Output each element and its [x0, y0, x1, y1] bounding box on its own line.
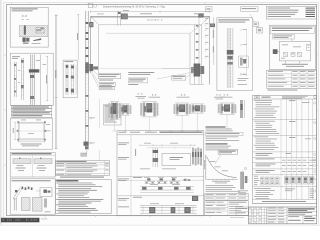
fastener cluster below section — [22, 37, 30, 42]
head assembly lower marks — [140, 168, 150, 171]
top profile long drawing — [140, 186, 194, 188]
order table header — [253, 98, 317, 100]
perspective thin profiles — [13, 198, 15, 211]
leader lines from gear — [162, 68, 194, 70]
order table block 2 text — [254, 120, 275, 123]
svg-text:B - A: B - A — [216, 93, 221, 96]
tech data table 1 — [205, 194, 248, 201]
profile bar bottom hardware — [84, 142, 89, 146]
left jamb corner hinge — [89, 22, 93, 27]
left caption rows block — [11, 106, 51, 109]
cover cap left panel — [13, 159, 31, 164]
drawing number cells — [302, 215, 304, 224]
hatched section detail — [19, 26, 48, 37]
order table row separators — [253, 119, 317, 121]
relay K1 — [291, 53, 295, 57]
tech data lines 2 — [206, 136, 239, 139]
top frame hinge hardware — [117, 12, 119, 26]
order table row profile — [256, 169, 275, 172]
central table header — [117, 134, 204, 136]
order table block 3 text — [254, 136, 268, 139]
perspective fasteners row — [22, 187, 24, 190]
svg-text:Ansicht A, B - B: Ansicht A, B - B — [147, 18, 163, 21]
tech data boxed line — [206, 132, 244, 135]
svg-text:A - A: A - A — [152, 94, 157, 97]
diagram axis caption — [212, 180, 230, 183]
elevation interior sash-bottom line — [99, 68, 190, 70]
left box dimension line — [46, 56, 48, 101]
order table row zubehoer — [256, 158, 275, 161]
dimension line sash — [77, 14, 79, 60]
diagram label box — [218, 150, 237, 154]
installation box — [10, 179, 55, 214]
tech data table 2 — [205, 201, 248, 216]
right dim strip — [213, 17, 215, 65]
cover cap right panel — [34, 159, 52, 164]
vertical profile 2 — [20, 58, 22, 100]
right jamb dimension labels — [205, 20, 207, 22]
bracket icons row — [147, 178, 150, 180]
central table frame — [117, 131, 204, 216]
svg-text:B - B: B - B — [22, 16, 28, 18]
head assembly left profiles — [152, 148, 154, 168]
head assembly right parts — [192, 148, 194, 165]
cover caps box — [10, 152, 55, 177]
section bottom tips — [113, 130, 117, 132]
central table divider oben — [117, 175, 204, 177]
profile bottom tip leader — [82, 153, 87, 157]
svg-text:B - B: B - B — [138, 94, 143, 96]
legend symbol pair — [253, 22, 259, 27]
perspective glazing panel 2 — [33, 198, 43, 212]
schematic caption — [282, 63, 308, 66]
central table divider unten — [117, 195, 204, 197]
title block middle cells — [266, 207, 268, 224]
terminal X1 — [307, 44, 311, 50]
Ansicht box dim ticks — [240, 29, 242, 31]
drawing title cell — [288, 211, 312, 214]
Ansicht box profile bars — [226, 28, 228, 88]
section detail S0 — [110, 101, 119, 103]
svg-text:Zusammenbauzeichnung Nr. 50 W: Zusammenbauzeichnung Nr. 50 W (v. Überst… — [103, 5, 166, 8]
cable table — [267, 70, 317, 88]
Ansicht box right — [217, 18, 253, 91]
elevation top dim line — [91, 11, 210, 13]
window schematic box — [10, 118, 52, 149]
section detail right strip — [240, 100, 243, 118]
window corner fittings — [17, 121, 19, 123]
order table block 1 text — [254, 99, 272, 102]
tech data header — [206, 126, 226, 127]
profile bar lower marks — [86, 95, 89, 97]
margin tick marks — [10, 3, 12, 5]
callout box 3 — [99, 87, 114, 90]
left profile box — [10, 53, 53, 105]
order table row montage — [256, 152, 273, 155]
switch S1 — [284, 52, 288, 57]
small table left of title block — [236, 207, 249, 216]
sill long drawing — [140, 205, 197, 207]
parts list table — [56, 161, 110, 176]
head assembly dim lines — [140, 144, 195, 146]
barcode label strip — [1, 218, 40, 223]
dark stamp in note box — [306, 8, 316, 9]
callout box at right jamb — [172, 75, 186, 80]
perspective glazing panel 1 — [22, 198, 31, 211]
head assembly dim line 2 — [148, 147, 190, 149]
svg-text:A - A: A - A — [181, 94, 186, 97]
pruefung note box — [104, 105, 122, 126]
frame bottom reference marks — [230, 216, 244, 219]
section detail S1 — [142, 101, 157, 103]
right jamb lock points — [196, 25, 199, 27]
diagram curve — [207, 157, 237, 178]
elevation sash line — [106, 32, 190, 34]
small profile box — [63, 60, 77, 98]
circuit labels — [282, 44, 288, 47]
section detail S2 — [175, 102, 189, 104]
section detail S0b — [121, 103, 130, 105]
strip part upper — [241, 172, 244, 189]
order table footer note — [262, 200, 306, 203]
notes box — [56, 180, 112, 214]
head assembly main profile rect — [162, 154, 191, 166]
leader circles on profile bar — [90, 117, 92, 119]
small box profile bars — [65, 64, 67, 95]
outer border frame — [4, 2, 319, 4]
unten corner cluster — [192, 196, 198, 201]
company name block — [288, 208, 315, 209]
dimension line FFH — [55, 15, 57, 150]
mullion right line — [40, 55, 42, 106]
mullion hardware cross — [29, 69, 40, 72]
perspective bracket right — [40, 188, 52, 197]
elevation left jamb — [90, 16, 92, 73]
window box caption — [21, 143, 42, 146]
diagram curve labels — [210, 160, 216, 163]
section detail S3 — [219, 102, 234, 104]
window dim lines — [14, 122, 16, 140]
circuit loop wire — [279, 41, 310, 61]
diagram axes — [205, 155, 207, 180]
schematic box — [269, 25, 315, 69]
schematic header — [271, 27, 315, 34]
svg-text:B - B: B - B — [240, 74, 245, 76]
order table row dichtung — [256, 163, 276, 166]
order table row number circles — [314, 102, 316, 104]
window outline — [18, 122, 45, 140]
elevation inner frame line — [99, 24, 202, 26]
elevation right jamb and miters — [209, 16, 211, 84]
dim extension line — [98, 99, 100, 128]
central mullion assembly — [29, 55, 31, 106]
elevation frame top edge — [91, 15, 210, 17]
Ansicht box inset detail — [239, 56, 248, 68]
tech data notes lines — [206, 184, 234, 187]
installation note box top right — [266, 6, 316, 19]
order table parts icons block — [254, 175, 258, 178]
window side labels — [46, 123, 50, 126]
svg-text:B - A: B - A — [224, 94, 229, 97]
vertical profile 1 — [13, 62, 15, 97]
detail box B-B — [10, 7, 48, 47]
function note lines — [128, 71, 154, 74]
parts list rows text — [56, 162, 64, 165]
note line under cable table — [268, 89, 298, 92]
order table column dividers — [280, 99, 282, 200]
revision grid — [250, 207, 252, 224]
central table label column — [130, 135, 132, 216]
callout box 2 — [99, 83, 115, 87]
left jamb espagnolette hardware — [85, 62, 89, 73]
strip leader marks — [244, 167, 246, 169]
top-right corner scissor hardware — [198, 14, 203, 18]
order table last block text — [254, 187, 271, 190]
order table frame — [253, 95, 317, 203]
callout box 1 — [98, 73, 121, 78]
tall vertical profile bar — [84, 11, 86, 150]
wire stubs — [285, 61, 287, 64]
right jamb gear hardware — [194, 64, 201, 77]
schematic sub-label box — [273, 35, 295, 39]
section detail S2b — [191, 103, 204, 105]
switch S2 — [298, 52, 302, 57]
top margin legend symbols — [89, 3, 93, 8]
motor M1 — [273, 49, 278, 54]
einbau header — [206, 143, 228, 144]
right corner hinge detail — [210, 24, 215, 28]
montage reference line — [60, 176, 104, 179]
title block frame — [249, 207, 317, 224]
perspective frame corner — [13, 188, 21, 199]
callout leader lines — [93, 70, 98, 76]
notes text lines — [56, 182, 92, 185]
wedge part — [33, 38, 41, 41]
